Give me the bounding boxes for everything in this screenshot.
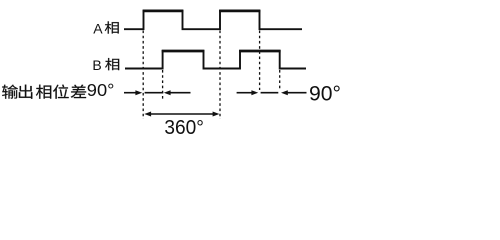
label chinese char xiang of "B相" [105, 58, 119, 70]
svg-text:360°: 360° [164, 117, 204, 139]
arrowhead pointing left at x=279.7 [281, 90, 288, 95]
arrowhead pointing left at x=143 (360 dim) [144, 112, 151, 117]
waveform B trace [125, 51, 306, 69]
right 90-degree arrow tail right [287, 92, 306, 94]
arrowhead pointing right at x=259.6 [251, 90, 258, 95]
label chinese char xiang of "A相" [105, 21, 119, 33]
label chinese char shu of phase-difference text [2, 85, 18, 99]
waveform A high pulse 2 thick top [219, 9, 260, 12]
svg-text:90°: 90° [309, 83, 341, 106]
arrowhead pointing left at x=162.6 [164, 90, 171, 95]
waveform A trace [124, 11, 302, 29]
dashed line at A rising edge 2 (x=220) [219, 31, 221, 120]
phase-difference arrow tail right [170, 92, 191, 94]
label chinese char xiang of phase-difference text [36, 85, 51, 99]
label chinese char wei of phase-difference text [53, 85, 69, 99]
svg-text:90°: 90° [87, 80, 115, 100]
waveform B high pulse 1 thick top [162, 50, 205, 53]
svg-text:B: B [92, 57, 101, 73]
svg-text:A: A [93, 21, 103, 37]
dashed line at A rising edge 1 (x=143) [142, 31, 144, 120]
dashed line at A falling edge 2 (x=259.6) [259, 31, 261, 91]
waveform A high pulse 1 thick top [143, 9, 184, 12]
arrowhead pointing right at x=220 (360 dim) [213, 112, 220, 117]
label chinese char cha of phase-difference text [71, 85, 86, 98]
360-degree dimension line [150, 113, 215, 115]
label chinese char chu of phase-difference text [19, 85, 32, 99]
dashed line at B falling edge 2 (x=279.7) [279, 70, 281, 90]
waveform B high pulse 2 thick top [239, 50, 281, 53]
arrowhead pointing right at x=143 [135, 90, 142, 95]
right 90-degree arrow tail left [237, 92, 252, 94]
phase-difference arrow tail left (from label to dashed line x=143) [124, 92, 137, 94]
connector line between dashed lines x=143 and x=162.6 [145, 92, 164, 94]
connector line between dashed lines x=259.6 and x=279.7 [261, 92, 279, 94]
dashed line at B rising edge 1 (x=162.6) [162, 70, 164, 101]
